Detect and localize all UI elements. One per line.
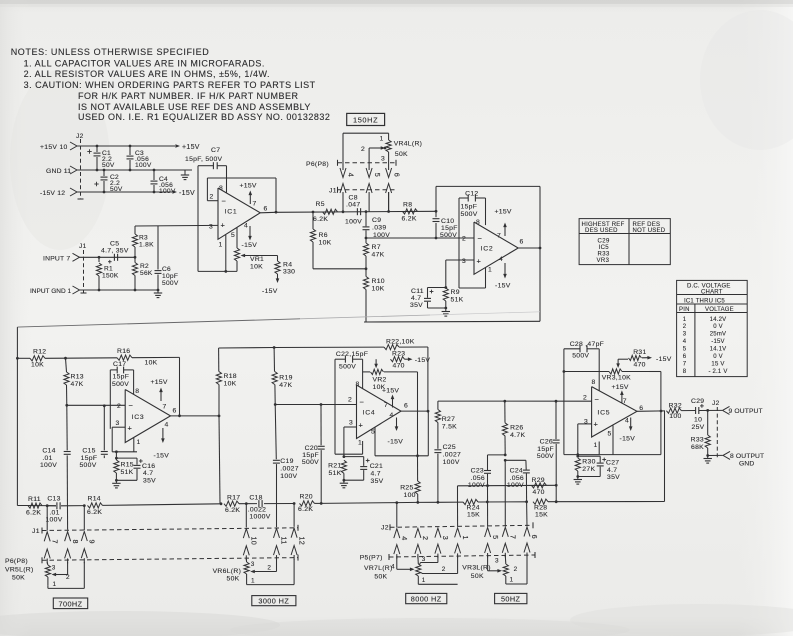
svg-text:10K: 10K — [224, 381, 237, 388]
capacitor C5 series — [113, 254, 115, 261]
wire c13 to r14 — [61, 505, 84, 507]
resistor R25 — [417, 456, 419, 481]
svg-text:15pF: 15pF — [302, 452, 319, 459]
svg-text:8: 8 — [135, 388, 139, 395]
wire r20 to 8000 band — [315, 502, 322, 504]
wire R26 chain down — [504, 460, 506, 526]
wire IC5 pin5 loop — [612, 426, 614, 455]
svg-text:.0027: .0027 — [443, 451, 462, 458]
resistor R3 — [134, 226, 136, 234]
svg-text:+15V 10: +15V 10 — [40, 144, 68, 151]
svg-text:C16: C16 — [142, 463, 155, 470]
svg-text:8000 HZ: 8000 HZ — [411, 594, 442, 603]
svg-text:-15V: -15V — [179, 190, 195, 197]
svg-text:100: 100 — [404, 492, 416, 499]
svg-text:100V: 100V — [443, 459, 460, 466]
svg-text:-15V: -15V — [415, 357, 431, 364]
svg-text:.039: .039 — [372, 225, 386, 232]
op-amp U4 IC4 triangle — [357, 385, 402, 439]
resistor R19 — [273, 348, 275, 372]
wire IC2 feedback bottom edge — [364, 320, 540, 323]
connector J1 arrows 3000Hz — [243, 529, 249, 539]
wire IC3 pin3 — [112, 426, 125, 428]
svg-text:NOTES: UNLESS OTHERWISE SPE: NOTES: UNLESS OTHERWISE SPECIFIED — [11, 47, 210, 57]
potentiometer VR4L terminal 1 wire — [343, 132, 389, 134]
svg-text:1.8K: 1.8K — [139, 242, 154, 249]
potentiometer VR7L pin1 route — [418, 583, 457, 585]
svg-text:7: 7 — [683, 362, 687, 368]
svg-text:50V: 50V — [110, 186, 123, 193]
svg-text:2: 2 — [683, 324, 687, 330]
svg-text:R6: R6 — [319, 232, 328, 239]
svg-text:8: 8 — [683, 369, 687, 375]
wire line1 8000 band — [458, 484, 557, 487]
input gnd wire — [80, 289, 159, 291]
svg-text:IC4: IC4 — [363, 410, 376, 417]
wire IC4 pin2 line — [275, 404, 356, 406]
svg-text:R7: R7 — [372, 244, 381, 251]
svg-text:35V: 35V — [143, 477, 156, 484]
svg-text:25mV: 25mV — [710, 332, 726, 338]
wire IC5 input line A — [438, 400, 592, 402]
wire R16 feedback corner — [179, 357, 181, 415]
resistor R20 — [300, 501, 315, 506]
input signal wire — [80, 256, 136, 258]
svg-text:3: 3 — [349, 419, 353, 426]
wire pin8 leg IC2 — [485, 198, 487, 225]
svg-text:1. ALL CAPACITOR VALUES ARE I: 1. ALL CAPACITOR VALUES ARE IN MICROFARA… — [24, 58, 265, 68]
svg-text:3: 3 — [683, 332, 687, 338]
svg-text:10K: 10K — [250, 264, 263, 271]
svg-text:5: 5 — [371, 429, 375, 436]
ground symbol output — [707, 456, 709, 459]
svg-text:1: 1 — [422, 577, 426, 584]
svg-text:-15V: -15V — [495, 283, 511, 290]
svg-text:USED ON. I.E. R1 EQUALIZER B: USED ON. I.E. R1 EQUALIZER BD ASSY NO. 0… — [78, 112, 330, 122]
connector P6(P8) dashed row bottom left — [42, 558, 298, 561]
svg-text:.0027: .0027 — [280, 465, 299, 472]
svg-text:2: 2 — [583, 395, 587, 402]
svg-text:-15V: -15V — [242, 242, 258, 249]
svg-text:INPUT 7: INPUT 7 — [43, 255, 70, 262]
connector P6 pin arrows 150Hz — [340, 168, 346, 178]
svg-text:R4: R4 — [283, 262, 292, 269]
svg-text:35V: 35V — [410, 302, 423, 309]
svg-text:C19: C19 — [280, 458, 293, 465]
wire R6 R7 junction — [313, 268, 366, 270]
svg-text:1: 1 — [358, 440, 362, 447]
svg-text:3: 3 — [52, 564, 56, 571]
potentiometer VR2 — [363, 371, 370, 373]
svg-text:+15V: +15V — [240, 183, 257, 190]
svg-text:0 V: 0 V — [713, 324, 723, 330]
op-amp U3 IC3 triangle — [125, 390, 170, 443]
svg-text:47K: 47K — [71, 381, 84, 388]
svg-text:R13: R13 — [71, 374, 84, 381]
svg-text:700HZ: 700HZ — [59, 599, 83, 608]
svg-text:2: 2 — [66, 574, 70, 581]
svg-text:IC1 THRU IC5: IC1 THRU IC5 — [684, 298, 725, 304]
wire IC2 pin3 — [446, 259, 474, 261]
wire VR3 right leg to output — [650, 371, 661, 373]
svg-text:2: 2 — [421, 536, 430, 540]
wire IC5 output — [637, 410, 665, 412]
op-amp U5 IC5 triangle — [592, 387, 637, 437]
wire pin5 loop bottom — [599, 454, 661, 456]
svg-text:3: 3 — [381, 156, 385, 163]
svg-text:14.1V: 14.1V — [710, 347, 727, 353]
svg-text:C29: C29 — [691, 398, 704, 405]
box label 150HZ — [347, 113, 385, 125]
svg-text:2: 2 — [514, 566, 518, 573]
svg-text:6.2K: 6.2K — [87, 509, 102, 516]
capacitor C6 — [157, 226, 159, 270]
wire -15V arrow IC2 pin 4 — [504, 263, 506, 276]
svg-text:R20: R20 — [300, 493, 313, 500]
resistor R21 — [341, 460, 346, 473]
svg-text:7.5K: 7.5K — [442, 423, 457, 430]
svg-text:4.7: 4.7 — [371, 470, 381, 477]
svg-text:IC5: IC5 — [599, 245, 610, 251]
svg-text:6: 6 — [264, 206, 268, 213]
svg-text:500V: 500V — [302, 459, 319, 466]
svg-text:4: 4 — [165, 422, 169, 429]
svg-text:C29: C29 — [598, 239, 610, 245]
svg-text:R23: R23 — [392, 351, 405, 358]
svg-text:C28 ,47pF: C28 ,47pF — [570, 341, 604, 348]
svg-text:6.2K: 6.2K — [225, 507, 240, 514]
svg-text:-15V: -15V — [656, 356, 672, 363]
resistor R29 — [532, 483, 547, 488]
resistor R18 — [218, 348, 220, 372]
wire pin8 leg IC5 — [598, 349, 600, 391]
svg-text:C10: C10 — [441, 218, 454, 225]
svg-text:25V: 25V — [692, 424, 705, 431]
svg-text:150HZ: 150HZ — [353, 115, 378, 124]
svg-text:5: 5 — [683, 347, 687, 353]
svg-text:R21: R21 — [328, 463, 341, 470]
input arrow INPUT GND pin 1 — [73, 286, 80, 294]
wire R22 line — [274, 346, 384, 348]
svg-text:4: 4 — [244, 223, 248, 230]
svg-text:.056: .056 — [471, 475, 485, 482]
svg-text:500V: 500V — [339, 364, 356, 371]
svg-text:R22,10K: R22,10K — [386, 338, 415, 345]
svg-text:15 V: 15 V — [711, 362, 724, 368]
wire C22 box left edge — [334, 359, 336, 454]
svg-text:3. CAUTION: WHEN ORDERING P: 3. CAUTION: WHEN ORDERING PARTS REFER TO… — [24, 80, 316, 90]
svg-text:J2: J2 — [381, 525, 389, 532]
svg-text:3: 3 — [209, 223, 213, 230]
svg-text:6: 6 — [173, 408, 177, 415]
svg-text:7: 7 — [623, 398, 627, 405]
svg-text:50K: 50K — [471, 573, 484, 580]
connector J1 arrows 150Hz — [340, 184, 346, 194]
ground symbol R21 — [343, 480, 345, 483]
svg-text:1: 1 — [461, 536, 470, 540]
resistor R10 — [365, 269, 367, 277]
svg-text:500V: 500V — [440, 232, 457, 239]
wire pin1 leg IC5 — [598, 442, 600, 455]
box label 700HZ — [53, 598, 87, 609]
svg-text:- 2.1 V: - 2.1 V — [708, 369, 727, 375]
svg-text:5: 5 — [608, 431, 612, 438]
resistor R26 — [503, 400, 506, 403]
potentiometer VR7L pin2 jog — [457, 556, 459, 574]
power input arrow GND pin 11 — [70, 166, 77, 174]
svg-text:8 OUTPUT: 8 OUTPUT — [730, 453, 764, 460]
svg-text:C15: C15 — [82, 448, 95, 455]
svg-text:R9: R9 — [451, 289, 460, 296]
svg-text:3000 HZ: 3000 HZ — [258, 597, 289, 606]
svg-text:VR5L(R): VR5L(R) — [5, 567, 34, 574]
ground symbol R9 — [445, 309, 447, 312]
capacitor C2 — [103, 169, 106, 172]
resistor R23 — [391, 357, 405, 362]
connector P6 arrows 700Hz — [44, 549, 50, 559]
capacitor C18 series — [239, 503, 257, 505]
capacitor C13 series — [47, 505, 56, 507]
svg-text:1: 1 — [380, 136, 384, 143]
resistor R6 — [312, 211, 315, 214]
svg-text:3: 3 — [251, 561, 255, 568]
potentiometer VR2 wiper — [375, 359, 377, 365]
svg-text:4: 4 — [625, 418, 629, 425]
svg-text:51K: 51K — [329, 470, 342, 477]
wire IC3 output — [171, 415, 220, 417]
svg-text:10K: 10K — [31, 362, 44, 369]
wire C12 box left and bottom — [458, 198, 460, 288]
svg-text:470: 470 — [634, 362, 646, 369]
svg-text:15K: 15K — [467, 512, 480, 519]
connector J1 arrows 700Hz — [44, 532, 50, 542]
table dc voltage chart — [677, 280, 748, 376]
svg-text:4.7: 4.7 — [143, 470, 153, 477]
svg-text:27K: 27K — [582, 466, 595, 473]
resistor R14 — [88, 503, 103, 508]
svg-text:50K: 50K — [374, 574, 387, 581]
svg-text:C6: C6 — [162, 266, 171, 273]
svg-text:+: + — [594, 420, 599, 429]
svg-text:VR3: VR3 — [597, 258, 610, 264]
svg-text:R33: R33 — [691, 437, 704, 444]
connector P6(P8) dashed row 150Hz — [338, 162, 397, 164]
svg-text:+: + — [128, 423, 133, 432]
svg-text:-15V 12: -15V 12 — [40, 190, 65, 197]
svg-text:6.2K: 6.2K — [313, 216, 328, 223]
wire pin1 leg IC2 — [485, 268, 487, 289]
svg-text:C27: C27 — [606, 460, 619, 467]
resistor R17 — [224, 501, 239, 506]
svg-text:7: 7 — [384, 402, 388, 409]
svg-text:1000V: 1000V — [249, 514, 270, 521]
svg-text:3: 3 — [495, 557, 499, 564]
wire -15V arrow IC5 pin 4 — [630, 418, 632, 429]
wire 3000Hz columns — [245, 504, 247, 528]
svg-text:R11: R11 — [28, 496, 41, 503]
svg-text:−: − — [595, 395, 600, 404]
svg-text:56K: 56K — [140, 270, 153, 277]
wire 700Hz columns — [46, 506, 48, 531]
capacitor C7 on feedback box — [198, 165, 213, 167]
svg-text:3: 3 — [584, 419, 588, 426]
svg-text:C8: C8 — [349, 194, 358, 201]
svg-text:100V: 100V — [40, 462, 57, 469]
svg-text:IC3: IC3 — [132, 414, 145, 421]
svg-text:50V: 50V — [102, 162, 115, 169]
wire -15V arrow IC1 pin 4 — [249, 226, 251, 239]
svg-text:4: 4 — [499, 256, 503, 263]
wire IC3 output down to lower line — [219, 416, 220, 503]
svg-text:+15V: +15V — [382, 388, 399, 395]
potentiometer VR5L pin1 route — [47, 585, 49, 588]
svg-text:6.2K: 6.2K — [402, 216, 417, 223]
potentiometer VR3L wiper — [487, 556, 489, 571]
svg-text:J1: J1 — [79, 243, 87, 250]
svg-text:C13: C13 — [47, 496, 60, 503]
svg-text:10: 10 — [250, 537, 259, 546]
svg-text:8: 8 — [71, 540, 80, 544]
svg-text:−: − — [478, 234, 483, 243]
wire C7 outer loop left — [197, 166, 199, 272]
svg-text:4.7, 35V: 4.7, 35V — [101, 248, 129, 255]
svg-text:4.7: 4.7 — [607, 467, 617, 474]
svg-text:.047: .047 — [346, 202, 360, 209]
wire C29 to J2 output — [699, 409, 722, 411]
svg-text:GND 11: GND 11 — [46, 168, 71, 175]
wire pin1 leg IC3 — [133, 438, 135, 452]
connector J2 dashed row — [390, 525, 533, 527]
svg-text:C11: C11 — [411, 288, 424, 295]
wire pin8 leg IC4 — [362, 359, 364, 389]
ground symbol power — [184, 170, 186, 172]
wire IC5 pin3 — [578, 423, 592, 425]
resistor R4 — [277, 256, 279, 262]
svg-text:J1: J1 — [32, 528, 40, 535]
svg-text:7: 7 — [497, 233, 501, 240]
svg-text:500V: 500V — [162, 280, 179, 287]
resistor R15 — [115, 452, 117, 460]
svg-text:35V: 35V — [607, 474, 620, 481]
resistor R16 — [66, 357, 118, 359]
svg-text:R19: R19 — [279, 375, 292, 382]
wire C26 down to R28 — [555, 485, 557, 501]
capacitor C4 — [153, 169, 156, 172]
svg-text:IS NOT AVAILABLE USE REF DES A: IS NOT AVAILABLE USE REF DES AND ASSEMBL… — [78, 102, 311, 112]
capacitor C19 — [275, 405, 276, 460]
wire IC4 pin5 loop — [374, 428, 376, 456]
svg-text:R25: R25 — [400, 485, 413, 492]
capacitor C26 — [555, 401, 557, 439]
svg-text:15pF: 15pF — [537, 446, 554, 453]
resistor R2 — [134, 257, 136, 262]
svg-text:2. ALL RESISTOR VALUES ARE IN: 2. ALL RESISTOR VALUES ARE IN OHMS, ±5%,… — [24, 69, 270, 79]
potentiometer VR3L pin1 route — [506, 583, 527, 585]
potentiometer VR1 — [234, 248, 239, 261]
svg-text:VOLTAGE: VOLTAGE — [705, 307, 734, 313]
box label 50HZ — [495, 593, 527, 603]
resistor R30 — [575, 458, 580, 471]
capacitor C14 — [66, 405, 68, 450]
svg-text:C17: C17 — [113, 361, 126, 368]
svg-text:50K: 50K — [12, 575, 25, 582]
svg-text:R33: R33 — [598, 252, 610, 258]
wire IC4 pin3 — [344, 426, 357, 428]
svg-text:47K: 47K — [372, 252, 385, 259]
wire R32 to C29 — [681, 410, 695, 412]
connector J2 power dashed line — [80, 139, 82, 199]
ground symbol R15 — [115, 480, 117, 483]
svg-text:2: 2 — [117, 403, 121, 410]
input arrow INPUT pin 7 — [73, 253, 80, 261]
resistor R12 — [16, 357, 19, 360]
svg-text:2: 2 — [348, 397, 352, 404]
potentiometer VR7L pin3 jog — [437, 556, 439, 563]
wire +15V arrow IC5 pin 7 — [621, 392, 623, 402]
svg-text:51K: 51K — [451, 297, 464, 304]
arrow to +15V net — [175, 144, 180, 148]
svg-text:35V: 35V — [371, 478, 384, 485]
svg-text:8: 8 — [592, 379, 596, 386]
svg-text:.01: .01 — [49, 509, 59, 516]
wire IC4 output — [401, 410, 428, 412]
svg-text:.0022: .0022 — [248, 507, 267, 514]
svg-text:J1: J1 — [329, 187, 337, 194]
op-amp U1 IC1 triangle — [218, 188, 260, 239]
svg-text:1: 1 — [510, 577, 514, 584]
wire pin1 leg IC4 — [362, 441, 364, 454]
capacitor C16 — [115, 457, 118, 460]
wire pin5 leg IC1 — [236, 228, 238, 249]
svg-text:R5: R5 — [316, 201, 325, 208]
capacitor C24 — [504, 459, 507, 462]
svg-text:−: − — [129, 401, 134, 410]
svg-text:7: 7 — [509, 535, 518, 539]
svg-text:330: 330 — [283, 269, 295, 276]
wire pin5 loop right up to output — [427, 411, 429, 456]
svg-text:+15V: +15V — [495, 209, 512, 216]
power input arrow -15V pin 12 — [70, 188, 77, 196]
svg-text:C22,15pF: C22,15pF — [336, 351, 368, 358]
svg-text:.056: .056 — [510, 475, 524, 482]
svg-text:50K: 50K — [227, 576, 240, 583]
svg-text:4: 4 — [683, 339, 687, 345]
op-amp U2 IC2 triangle — [474, 222, 518, 274]
svg-text:14.2V: 14.2V — [710, 317, 727, 323]
svg-text:VR7L(R): VR7L(R) — [364, 565, 393, 572]
svg-text:IC5: IC5 — [597, 410, 610, 417]
capacitor C9 — [365, 212, 367, 227]
capacitor C12 feedback box — [459, 197, 468, 199]
svg-text:50HZ: 50HZ — [501, 594, 521, 603]
svg-text:C26: C26 — [540, 439, 553, 446]
svg-text:R14: R14 — [88, 496, 101, 503]
svg-text:6: 6 — [520, 239, 524, 246]
svg-text:-15V: -15V — [154, 453, 170, 460]
svg-text:4.7K: 4.7K — [510, 432, 525, 439]
svg-text:D.C. VOLTAGE: D.C. VOLTAGE — [687, 283, 731, 289]
wire R22 line left — [219, 347, 275, 350]
capacitor C3 — [129, 145, 132, 148]
potentiometer VR3 wiper — [617, 359, 619, 364]
capacitor C17 feedback box — [110, 369, 117, 371]
svg-text:2: 2 — [462, 236, 466, 243]
svg-text:P5(P7): P5(P7) — [360, 555, 383, 562]
svg-text:0 V: 0 V — [713, 354, 723, 360]
capacitor C27 — [578, 455, 600, 457]
wire lower band line — [17, 505, 56, 507]
svg-text:100V: 100V — [159, 188, 176, 195]
